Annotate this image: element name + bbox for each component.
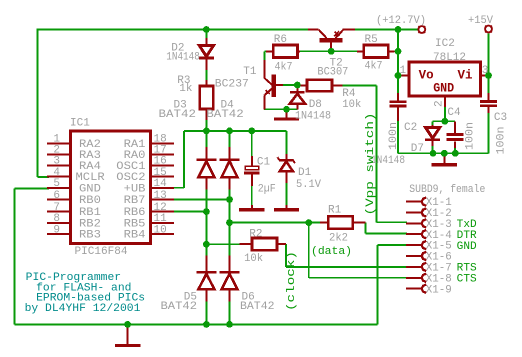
svg-text:7: 7 [53, 202, 60, 214]
wire Vpp switch drop [376, 86, 378, 223]
diode D6 BAT42 [220, 271, 240, 274]
wire D3 cathode stub [205, 131, 207, 159]
wire RB7 pin13 to D4 column [173, 199, 230, 201]
svg-text:by DL4YHF 12/2001: by DL4YHF 12/2001 [25, 303, 141, 315]
junction IC2 pin3 +15V [485, 72, 492, 79]
svg-text:1N4148: 1N4148 [166, 51, 200, 63]
svg-text:BAT42: BAT42 [240, 301, 275, 313]
svg-text:+15V: +15V [468, 15, 493, 27]
pin 1 IC2 Vo [398, 75, 409, 77]
pin R5 right [388, 50, 394, 52]
wire R6-R5 row [298, 50, 364, 52]
pin 13 IC1 right [151, 199, 175, 201]
junction T2 base R6 R5 [328, 48, 335, 55]
svg-text:D7: D7 [411, 143, 424, 155]
pin R2 right [277, 243, 286, 245]
pin 4 IC1 left [47, 176, 71, 178]
junction C4 gnd rail [452, 150, 459, 157]
pin D1 cathode [286, 154, 288, 161]
wire C3 bottom drop [488, 106, 490, 153]
capacitor C3 100n [480, 100, 497, 103]
connector pin X1-4 [406, 233, 422, 235]
connector pin X1-1 [406, 201, 422, 203]
supply +15V pad [485, 26, 492, 33]
diode D7 1N4148 [426, 128, 440, 139]
svg-text:5.1V: 5.1V [296, 179, 321, 191]
svg-text:R1: R1 [328, 204, 342, 216]
junction D6 bottom rail [226, 321, 233, 328]
wire gnd symbol stub IC2 [443, 153, 445, 161]
pin R6 right [298, 50, 301, 52]
IC IC2 78L12 body [409, 62, 481, 96]
pin 3 IC1 left [47, 164, 71, 166]
svg-text:C3: C3 [494, 112, 507, 124]
svg-text:RB6: RB6 [124, 207, 146, 219]
pin 8 IC1 left [47, 222, 71, 224]
svg-text:11: 11 [154, 213, 168, 225]
svg-text:RB1: RB1 [79, 207, 101, 219]
supply +12.7V pad [418, 26, 425, 33]
wire VZ rail drop to +UB [183, 131, 185, 188]
svg-text:78L12: 78L12 [433, 52, 466, 64]
pin 7 IC1 left [47, 211, 71, 213]
svg-text:RB7: RB7 [124, 195, 146, 207]
pin R4 right [332, 85, 343, 87]
wire to X1-8 CTS [309, 277, 407, 279]
transistor T2 BC307 [320, 38, 343, 43]
svg-text:X1-9: X1-9 [426, 284, 452, 296]
svg-text:Vo: Vo [419, 68, 434, 82]
connector pin X1-7 [406, 266, 422, 268]
pin 17 IC1 right [151, 153, 175, 155]
wire to X1-7 RTS [286, 266, 407, 268]
svg-text:100n: 100n [465, 122, 477, 150]
svg-text:1N4148: 1N4148 [295, 111, 331, 123]
pin 11 IC1 right [151, 222, 175, 224]
pin D3 anode [205, 177, 207, 189]
ground bottom rail [127, 324, 129, 345]
wire clock net to R2 [206, 243, 252, 245]
svg-text:16: 16 [154, 156, 167, 168]
junction RB7 D4 column [226, 196, 233, 203]
connector pin X1-2 [406, 212, 422, 214]
wire VZ rail drop to D1 [286, 131, 288, 159]
svg-text:2µF: 2µF [258, 183, 276, 195]
zener diode D1 5.1V [279, 159, 294, 162]
wire RB6 pin12 to D3 column [173, 211, 206, 213]
connector pin X1-9 [406, 288, 422, 290]
junction rail to R5/IC2 drop [395, 26, 402, 33]
junction R1 CTS branch [305, 219, 312, 226]
pin 5 IC1 left [47, 187, 71, 189]
wire Vo rail x=398 [397, 29, 399, 101]
svg-text:R6: R6 [274, 34, 287, 46]
junction gnd symbol rail [441, 150, 448, 157]
pin D8 cathode [296, 85, 298, 92]
pin R4 left [300, 85, 307, 87]
svg-text:100n: 100n [388, 122, 400, 150]
junction data net column [226, 219, 233, 226]
pin T2 base [330, 43, 332, 52]
wire to X1-3 TxD [377, 221, 408, 223]
wire column RB6 net [205, 178, 207, 271]
junction RB6 D3 column [203, 208, 210, 215]
pin R1 right [353, 222, 366, 224]
pin D7 top [432, 125, 434, 127]
svg-text:4: 4 [53, 167, 60, 179]
svg-text:10k: 10k [342, 99, 361, 111]
junction D2 top rail [203, 26, 210, 33]
junction VZ rail D3 [203, 127, 210, 134]
junction R5 right rail [395, 48, 402, 55]
wire VZ rail y=131 [184, 130, 287, 132]
wire GND to pin 5 [14, 188, 49, 190]
svg-text:100n: 100n [496, 127, 508, 155]
wire R3 bottom to VZ rail [205, 109, 207, 131]
svg-text:(data): (data) [311, 246, 352, 258]
svg-text:RB4: RB4 [124, 230, 146, 242]
ground below IC2 rail [443, 153, 445, 165]
transistor T1 BC237 [272, 75, 276, 98]
resistor R2 body [252, 238, 277, 250]
pin R2 left [240, 243, 252, 245]
svg-text:2: 2 [434, 100, 446, 107]
svg-text:RB5: RB5 [124, 218, 146, 230]
pin D5 cathode [205, 256, 207, 273]
pin 16 IC1 right [151, 164, 175, 166]
svg-text:6: 6 [53, 190, 60, 202]
svg-text:GND: GND [457, 241, 477, 253]
svg-text:RB3: RB3 [79, 230, 101, 242]
connector pin X1-6 [406, 255, 422, 257]
pin R5 left [357, 50, 364, 52]
svg-text:PIC16F84: PIC16F84 [75, 246, 128, 258]
pin 1 IC1 left [47, 142, 71, 144]
svg-text:OSC2: OSC2 [116, 172, 145, 184]
junction D7 gnd rail [430, 150, 437, 157]
capacitor C1 2uF [245, 166, 259, 169]
resistor R6 body [273, 45, 297, 58]
svg-text:C4: C4 [447, 107, 461, 119]
junction VZ rail D4 [226, 127, 233, 134]
svg-text:1k: 1k [179, 83, 193, 95]
svg-text:BAT42: BAT42 [206, 109, 244, 121]
svg-text:MCLR: MCLR [76, 172, 106, 184]
svg-text:R2: R2 [249, 228, 262, 240]
junction T1 base D8 R4 [294, 82, 301, 89]
pin D5 anode [205, 289, 207, 301]
wire X1-5 GND left [378, 244, 408, 246]
svg-text:Vi: Vi [458, 68, 473, 82]
wire D2 to R3 [205, 59, 207, 86]
pin D2 bottom [205, 58, 207, 70]
pin R6 left [266, 50, 273, 52]
svg-text:10k: 10k [244, 253, 263, 265]
svg-text:R4: R4 [342, 88, 356, 100]
capacitor C4 100n [447, 133, 464, 136]
pin T1 base [276, 84, 283, 86]
svg-text:T1: T1 [243, 66, 257, 78]
pin 14 IC1 right [151, 187, 175, 189]
junction IC2 pin1 rail [395, 72, 402, 79]
wire IC2 ground rail [398, 152, 489, 154]
wire column RB7 net [229, 178, 231, 271]
wire R5 right to rail [388, 50, 398, 52]
wire GND left riser [13, 189, 15, 325]
ground below D1 [286, 205, 288, 210]
pin 2 IC2 GND [444, 96, 446, 107]
pin D8 anode [296, 104, 298, 110]
svg-text:5: 5 [53, 178, 60, 190]
diode D3 BAT42 [197, 158, 217, 161]
pin 15 IC1 right [151, 176, 175, 178]
junction D5 bottom rail [203, 321, 210, 328]
wire to +UB pin 14 [173, 187, 184, 189]
pin D4 anode [229, 177, 231, 189]
svg-text:9: 9 [53, 224, 60, 236]
pin D2 top [205, 38, 207, 45]
resistor R3 body [200, 86, 213, 109]
wire R6 left stub [264, 50, 273, 52]
junction T1 emitter ground [283, 106, 290, 113]
wire T1 emitter node [264, 108, 298, 110]
svg-text:(Vpp switch): (Vpp switch) [365, 113, 377, 216]
svg-text:SUBD9, female: SUBD9, female [409, 184, 485, 196]
wire C4 top stub [454, 121, 456, 133]
wire left drop to MCLR [37, 29, 39, 177]
wire C2 bottom drop [397, 107, 399, 153]
pin D6 anode [229, 289, 231, 301]
junction clock net column [203, 241, 210, 248]
svg-text:13: 13 [154, 190, 167, 202]
pin 6 IC1 left [47, 199, 71, 201]
capacitor C2 100n [390, 100, 407, 103]
junction gnd symbol bottom rail [124, 321, 131, 328]
pin C1 bottom [251, 175, 253, 187]
resistor R4 body [307, 80, 332, 92]
svg-text:4k7: 4k7 [275, 61, 293, 73]
pin 9 IC1 left [47, 233, 71, 235]
svg-text:C1: C1 [257, 157, 271, 169]
wire R1 right stub run [353, 222, 366, 224]
pin 3 IC2 Vi [481, 75, 489, 77]
svg-text:15: 15 [154, 167, 167, 179]
svg-text:14: 14 [154, 178, 168, 190]
pin 2 IC1 left [47, 153, 71, 155]
wire R1 branch down [308, 223, 310, 278]
wire R2 right stub run [277, 243, 286, 245]
wire D4 cathode stub [229, 131, 231, 159]
svg-text:(+12.7V): (+12.7V) [376, 15, 426, 27]
ground below C1 [251, 205, 253, 210]
svg-text:RA4: RA4 [79, 161, 101, 173]
pin D6 cathode [229, 256, 231, 273]
svg-text:R5: R5 [365, 34, 378, 46]
wire D7 top stub [432, 121, 434, 126]
junction IC2 gnd D7 C4 [442, 118, 449, 125]
resistor R5 body [364, 45, 389, 58]
wire D6 anode to gnd rail [229, 290, 231, 325]
pin 12 IC1 right [151, 211, 175, 213]
svg-text:GND: GND [433, 81, 454, 95]
wire C1 top stub [251, 131, 253, 167]
svg-text:(clock): (clock) [286, 251, 298, 311]
wire D7/C4 node [433, 120, 456, 122]
wire D7 bottom stub [432, 141, 434, 153]
svg-text:+UB: +UB [124, 183, 146, 195]
svg-text:3: 3 [53, 156, 60, 168]
wire to X1-4 DTR [366, 233, 408, 235]
pin D4 cathode [229, 147, 231, 159]
svg-text:8: 8 [53, 213, 60, 225]
pin D7 bottom [432, 140, 434, 146]
diode D2 1N4148 [199, 46, 213, 57]
svg-text:D1: D1 [298, 167, 312, 179]
wire +15V drop to Vi/C3 [488, 34, 490, 101]
wire R6 left drop to T1 collector [263, 51, 265, 62]
svg-text:C2: C2 [404, 122, 417, 134]
pin R3 bottom [205, 109, 207, 120]
svg-text:CTS: CTS [457, 274, 477, 286]
wire T1 base to D8/R4 node [276, 84, 300, 86]
connector pin X1-8 [406, 277, 422, 279]
pin 18 IC1 right [151, 142, 175, 144]
wire data net to R1 [230, 222, 329, 224]
svg-text:BAT42: BAT42 [159, 109, 197, 121]
pin C1 top [251, 156, 253, 166]
wire R4 to Vpp switch net [332, 85, 377, 87]
svg-text:IC2: IC2 [435, 38, 455, 50]
pin D1 anode [286, 171, 288, 183]
wire GND bottom rail [14, 323, 377, 325]
wire rail to D2 [205, 30, 207, 41]
diode D4 BAT42 [220, 158, 240, 161]
diode D8 1N4148 [290, 91, 305, 94]
svg-text:IC1: IC1 [70, 117, 90, 129]
ground below T1 emitter [286, 109, 288, 119]
wire +12.7V top rail left segment [38, 29, 309, 31]
wire GND drop right [377, 245, 379, 324]
resistor R1 body [328, 216, 353, 229]
pin R3 top [205, 80, 207, 86]
svg-text:BAT42: BAT42 [161, 301, 198, 313]
svg-text:12: 12 [154, 202, 167, 214]
junction VZ rail C1 [248, 127, 255, 134]
svg-text:D8: D8 [309, 99, 322, 111]
wire R1 jog down [365, 223, 367, 234]
svg-text:BC237: BC237 [215, 78, 249, 90]
pin 10 IC1 right [151, 233, 175, 235]
svg-text:10: 10 [154, 224, 167, 236]
wire R2 jog down [285, 244, 287, 267]
pin D3 cathode [205, 147, 207, 159]
svg-text:RB0: RB0 [79, 195, 101, 207]
pin R1 left [320, 222, 328, 224]
connector pin X1-3 [406, 222, 422, 224]
wire IC2 GND pin drop [444, 96, 446, 121]
svg-text:2k2: 2k2 [329, 233, 348, 245]
diode D5 BAT42 [197, 271, 217, 274]
wire D5 anode to gnd rail [205, 290, 207, 325]
svg-text:BC307: BC307 [317, 66, 348, 78]
svg-text:4k7: 4k7 [365, 60, 383, 72]
connector pin X1-5 [406, 244, 422, 246]
svg-text:RB2: RB2 [79, 218, 101, 230]
svg-text:OSC1: OSC1 [116, 161, 146, 173]
wire to MCLR pin 4 [38, 176, 50, 178]
IC IC1 PIC16F84 body [71, 131, 151, 244]
wire C4 bottom stub [454, 142, 456, 154]
svg-text:GND: GND [79, 183, 101, 195]
wire +12.7V top rail right segment [355, 29, 418, 31]
